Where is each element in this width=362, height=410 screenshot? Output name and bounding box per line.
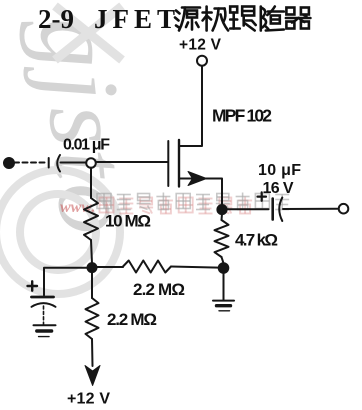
watermark row (decorative) <box>60 193 289 217</box>
wire: C3 to ground <box>43 306 45 325</box>
wire: input dashed <box>14 162 46 164</box>
wire: right junction to ground <box>223 273 225 300</box>
wire: left junction to R3 <box>97 266 124 268</box>
wire: C2 to output <box>283 208 337 210</box>
svg-text:+12 V: +12 V <box>67 391 110 408</box>
wire: R4 to supply arrow <box>91 339 94 366</box>
node: right junction dot <box>219 263 229 273</box>
wire: node to JFET gate <box>96 161 168 163</box>
capacitor C3 top plate <box>32 296 54 299</box>
capacitor C2 right plate (curved) <box>279 198 282 222</box>
wire: R3 to right junction <box>171 267 219 268</box>
node: source junction dot <box>217 205 226 214</box>
node: gate junction (open circle) <box>86 158 96 168</box>
resistor R2 4.7 kohm <box>215 220 229 257</box>
svg-text:4.7 kΩ: 4.7 kΩ <box>235 231 278 250</box>
resistor R3 2.2 Mohm (horizontal) <box>123 261 171 273</box>
wire: C1 to gate node <box>61 162 87 164</box>
capacitor C1 0.01uF right plate <box>57 155 60 172</box>
wire: source lead with arrow <box>180 179 222 206</box>
node: left junction dot <box>88 263 97 272</box>
+12V supply terminal <box>197 56 207 66</box>
capacitor C1 0.01uF left plate <box>48 158 50 168</box>
svg-text:2.2 MΩ: 2.2 MΩ <box>133 280 185 299</box>
input terminal <box>4 158 14 168</box>
svg-text:JFET: JFET <box>94 4 180 34</box>
wire: 4.7k to lower right junction <box>222 257 224 263</box>
ink <box>4 56 348 386</box>
capacitor C2 left plate <box>271 199 274 220</box>
svg-text:+12 V: +12 V <box>179 36 222 53</box>
transistor Q1 source arrow <box>188 172 207 186</box>
svg-text:16 V: 16 V <box>263 180 294 197</box>
transistor Q1 MPF102 gate bar <box>167 141 169 186</box>
wire: drain to +12V <box>180 66 202 146</box>
wire: left junction down to R4 <box>91 272 93 298</box>
svg-text:10 μF: 10 μF <box>258 162 301 179</box>
wire: source junction down to 4.7k <box>221 214 224 220</box>
svg-text:MPF 102: MPF 102 <box>212 106 272 126</box>
title hanzi: source follower <box>175 8 200 31</box>
resistor R4 2.2 Mohm (vertical) <box>86 298 99 339</box>
supply arrow (to +12V) <box>85 366 100 386</box>
wire: node down into 10M <box>90 168 92 198</box>
wire: source junction to C2 <box>227 208 269 210</box>
watermark background <box>0 6 155 294</box>
resistor R1 10 Mohm <box>84 198 98 240</box>
wire: left junction to bypass cap <box>44 268 88 296</box>
wire: 10M to lower node <box>91 240 92 264</box>
value labels <box>63 36 301 407</box>
svg-text:10 MΩ: 10 MΩ <box>105 212 151 231</box>
capacitor C2 plus sign <box>258 192 267 200</box>
capacitor C3 bottom plate (curved) <box>32 303 56 307</box>
ground (right) <box>213 300 234 302</box>
ground (left) <box>34 324 56 326</box>
svg-text:2-9: 2-9 <box>38 4 74 34</box>
svg-text:2.2 MΩ: 2.2 MΩ <box>107 310 157 329</box>
svg-text:0.01 μF: 0.01 μF <box>63 137 110 154</box>
output terminal <box>339 204 349 214</box>
title: 2-9 JFET source follower <box>38 4 180 34</box>
transistor Q1 MPF102 channel bar <box>178 140 180 187</box>
capacitor C3 plus sign <box>28 281 38 290</box>
